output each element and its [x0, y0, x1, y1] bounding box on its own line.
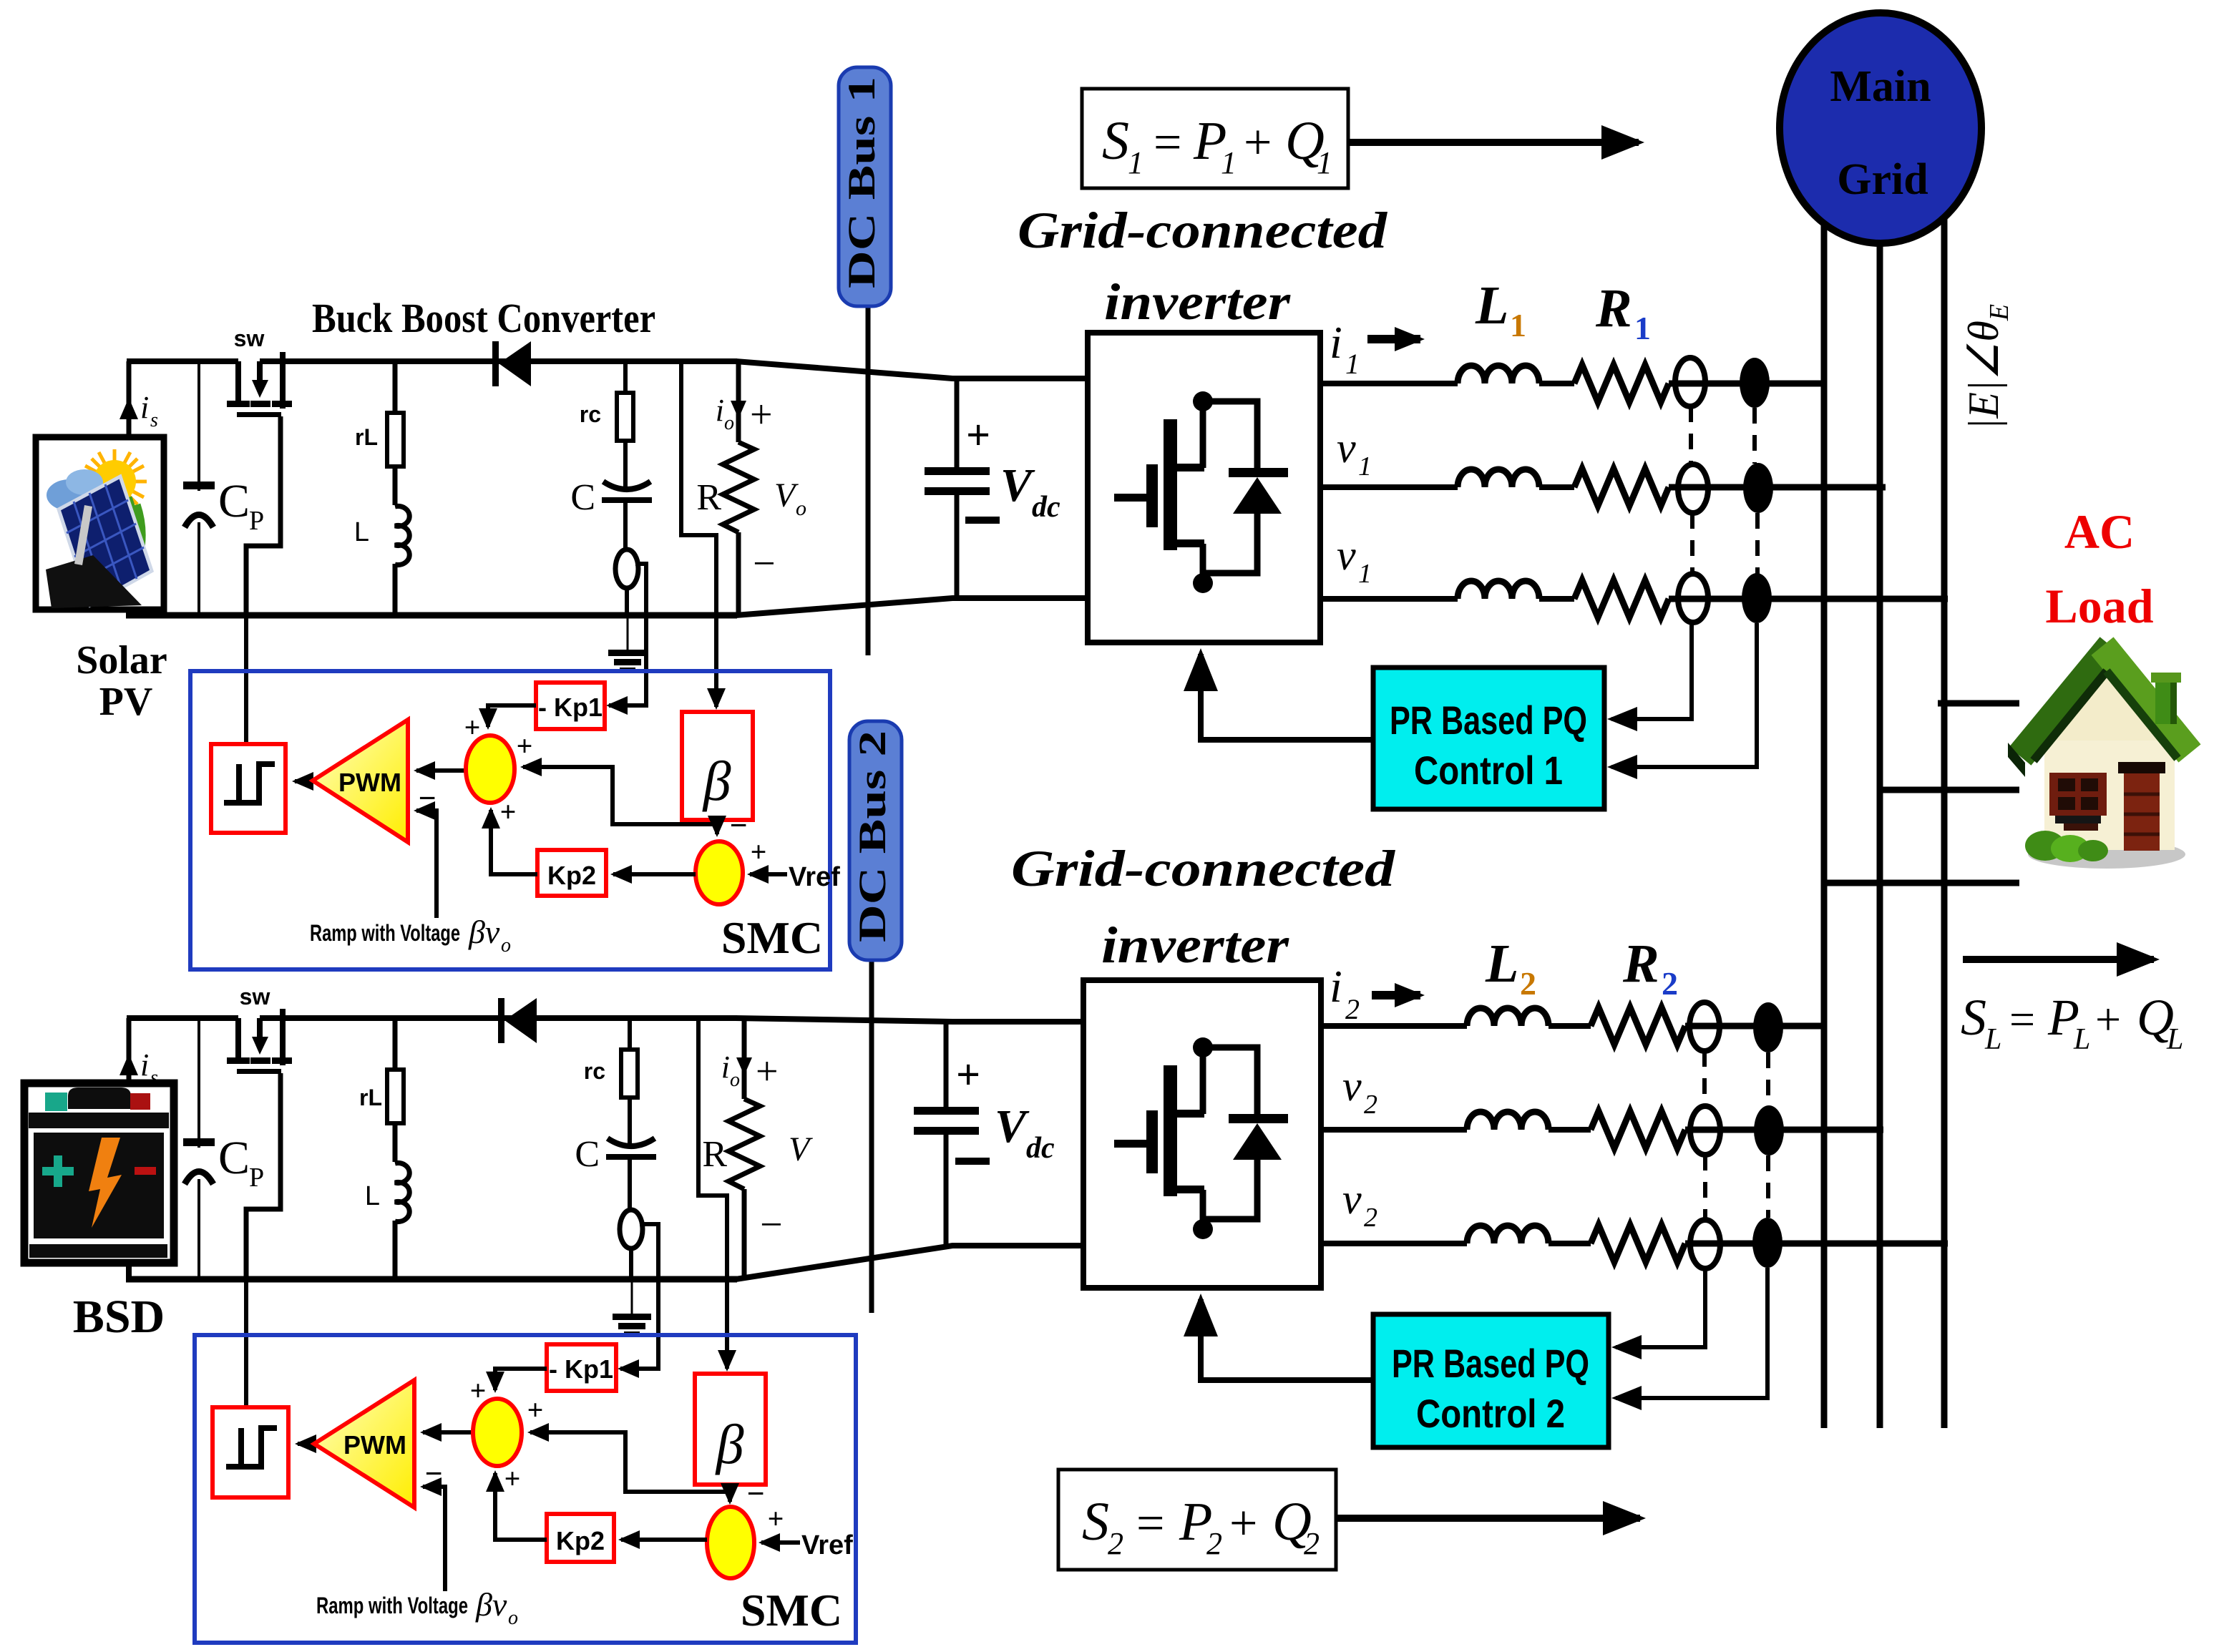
svg-text:+: +	[1244, 115, 1272, 170]
wire bus line B	[1877, 186, 1883, 1428]
block -Kp1 u1	[536, 683, 605, 729]
capacitor branch rc1	[623, 361, 628, 393]
block PWM2 triangle	[314, 1380, 414, 1507]
node DC Bus 2 line	[869, 960, 874, 1313]
resistor R1 zigzag a	[1574, 365, 1669, 402]
transistor Q2 igbt	[1114, 1065, 1204, 1196]
svg-text:Control 1: Control 1	[1414, 748, 1563, 793]
wire top rail2 left	[127, 1015, 238, 1021]
capacitor Cp1 wire	[197, 361, 200, 615]
wire Kp2 to sum2a	[495, 1473, 547, 1540]
diode D1f freewheel	[1203, 401, 1257, 472]
svg-text:P: P	[249, 506, 264, 536]
svg-text:SMC: SMC	[721, 912, 823, 963]
roof right band	[2102, 646, 2190, 753]
svg-text:+: +	[504, 1462, 521, 1495]
current arrow is	[127, 401, 132, 430]
wire phase2a	[1321, 1023, 1467, 1029]
load branch R2o	[742, 1018, 747, 1099]
svg-text:s: s	[150, 409, 158, 431]
block beta1	[682, 712, 753, 820]
resistor R1o zigzag	[723, 442, 754, 532]
svg-text:L: L	[2073, 1023, 2090, 1056]
svg-text:1: 1	[1128, 145, 1143, 180]
svg-text:R: R	[696, 477, 721, 518]
inductor branch rL1	[393, 361, 398, 615]
svg-text:Vref: Vref	[801, 1530, 853, 1560]
svg-text:−: −	[418, 781, 436, 816]
wire phase1b	[1320, 484, 1458, 490]
wire gate drive from SMC2	[244, 1209, 248, 1407]
capacitor Vdc2	[944, 1022, 949, 1109]
svg-text:- Kp1: - Kp1	[538, 693, 603, 722]
solar PV source icon frame	[36, 437, 164, 610]
wire beta1 to sum2	[715, 824, 719, 834]
wire load stub phase b	[1881, 787, 2019, 793]
svg-text:2: 2	[1364, 1203, 1377, 1233]
svg-text:L: L	[1475, 275, 1508, 336]
svg-text:v: v	[1342, 1062, 1362, 1110]
svg-text:R: R	[1595, 278, 1632, 338]
wire sensor feedback i to PR1	[1611, 623, 1757, 767]
svg-text:o: o	[724, 412, 734, 434]
wire sensor feedback v to PR2	[1616, 1269, 1705, 1347]
chimney	[2155, 681, 2172, 724]
wire phase2b	[1321, 1127, 1467, 1133]
svg-text:V: V	[995, 1100, 1030, 1153]
svg-text:2: 2	[1662, 965, 1678, 1002]
svg-text:2: 2	[1520, 965, 1536, 1002]
mosfet SW1	[227, 352, 292, 417]
svg-text:PR Based PQ: PR Based PQ	[1390, 698, 1587, 743]
label S2 = P2 + Q2 box	[1058, 1470, 1336, 1570]
svg-text:v: v	[1342, 1176, 1362, 1223]
current sensor S1s	[615, 549, 638, 588]
bushes	[2025, 831, 2065, 861]
inductor branch rL2	[393, 1018, 398, 1279]
capacitor Cp2	[186, 1148, 212, 1179]
svg-text:o: o	[508, 1607, 518, 1629]
wire top rail right segment	[260, 358, 737, 364]
svg-text:P: P	[249, 1163, 264, 1193]
inductor L2coil	[391, 1162, 400, 1221]
wire Kp1 to sum1	[488, 705, 536, 727]
svg-text:2: 2	[1304, 1526, 1320, 1561]
svg-text:sw: sw	[240, 984, 270, 1010]
wire PR1 to inverter gate	[1201, 654, 1373, 740]
svg-text:+: +	[1229, 1496, 1257, 1551]
svg-text:rc: rc	[584, 1058, 605, 1084]
wire mosfet source step	[246, 416, 281, 615]
svg-text:Kp2: Kp2	[547, 861, 596, 890]
wire phase2c	[1321, 1241, 1467, 1246]
inductor L1 coil a	[1458, 366, 1539, 383]
svg-text:i: i	[716, 393, 724, 428]
wire sum2 to Kp2	[613, 872, 696, 876]
wire phase1a	[1320, 381, 1458, 386]
svg-text:2: 2	[1345, 993, 1360, 1025]
svg-text:L: L	[365, 1181, 380, 1211]
svg-text:PWM: PWM	[343, 1430, 406, 1460]
svg-text:rL: rL	[359, 1085, 382, 1110]
diode D2	[498, 998, 504, 1043]
wire bus line C	[1941, 186, 1948, 1428]
node Main Grid	[1780, 13, 1981, 243]
svg-text:DC Bus 2: DC Bus 2	[851, 730, 894, 942]
label S1 = P1 + Q1 box	[1082, 89, 1348, 188]
wire Kp1 to sum2a	[495, 1369, 547, 1390]
inverter U2 box	[1083, 980, 1321, 1288]
wire converging trapezoid to Vdc2	[736, 1018, 1085, 1022]
wire PWM2 to H2	[298, 1442, 314, 1446]
block hysteresis H2	[213, 1407, 288, 1497]
ground GND1	[627, 615, 629, 651]
svg-text:βv: βv	[475, 1586, 507, 1623]
wire beta2 to sum2b	[728, 1492, 732, 1502]
svg-text:+: +	[768, 1502, 784, 1535]
svg-text:S: S	[1961, 989, 1986, 1046]
wire beta1 feedback to sum1	[523, 767, 717, 824]
wire battery top to rail2	[127, 1018, 132, 1083]
wire sensor feedback v to PR1	[1611, 622, 1692, 719]
svg-text:=: =	[1154, 115, 1181, 170]
block beta2	[695, 1374, 766, 1485]
capacitor Cp1	[186, 491, 212, 522]
svg-text:2: 2	[1108, 1526, 1123, 1561]
wire dashed sensor links unit2	[1705, 1051, 1768, 1220]
svg-text:1: 1	[1317, 145, 1332, 180]
svg-text:dc: dc	[1032, 491, 1060, 524]
wire arrow S1 to grid	[1348, 139, 1639, 146]
node sum S2a	[473, 1399, 522, 1466]
svg-text:inverter: inverter	[1101, 917, 1289, 974]
wire bus line A	[1821, 186, 1828, 1428]
svg-text:−: −	[729, 808, 747, 843]
svg-text:L: L	[2166, 1023, 2183, 1056]
roof left band	[2020, 646, 2111, 756]
block Kp2 u1	[537, 850, 606, 896]
house icon	[2008, 646, 2190, 869]
svg-text:o: o	[730, 1069, 740, 1091]
wire dashed sensor links unit1	[1691, 406, 1757, 575]
svg-text:V: V	[789, 1130, 813, 1168]
capacitor C1	[603, 482, 650, 489]
svg-text:=: =	[1136, 1496, 1164, 1551]
svg-text:+: +	[464, 711, 481, 743]
svg-text:1: 1	[1221, 145, 1237, 180]
svg-text:C: C	[575, 1134, 600, 1175]
resistor R2o zigzag	[728, 1099, 760, 1189]
svg-text:C: C	[218, 1132, 250, 1184]
svg-text:=: =	[2009, 994, 2035, 1045]
wire sensor2 tap to Kp1	[620, 1224, 658, 1369]
svg-text:R: R	[1622, 934, 1659, 994]
svg-text:o: o	[796, 497, 806, 520]
wire beta2 feedback to sum2a	[530, 1432, 730, 1492]
svg-text:PR Based PQ: PR Based PQ	[1392, 1341, 1589, 1386]
wire ramp to PWM2	[423, 1487, 445, 1591]
svg-text:Ramp with Voltage: Ramp with Voltage	[316, 1593, 468, 1618]
svg-text:L: L	[1485, 934, 1518, 994]
wire PWM1 to H1	[295, 779, 313, 783]
door	[2118, 762, 2165, 773]
svg-text:−: −	[424, 1456, 442, 1491]
diode D1	[492, 341, 499, 386]
svg-text:DC Bus 1: DC Bus 1	[840, 77, 883, 288]
svg-text:+: +	[517, 730, 533, 762]
svg-text:i: i	[1330, 961, 1342, 1012]
node sum S1b	[696, 841, 743, 904]
block SMC2 frame	[195, 1335, 856, 1643]
sun	[82, 449, 147, 514]
label DC Bus 1	[839, 67, 891, 306]
svg-text:1: 1	[1510, 307, 1526, 343]
svg-text:+: +	[756, 1050, 779, 1094]
svg-text:+: +	[751, 836, 767, 868]
svg-text:o: o	[501, 934, 511, 957]
svg-text:i: i	[140, 390, 149, 425]
node voltage sensor column unit1 (open ellipses)	[1675, 358, 1705, 406]
current arrow is2	[127, 1057, 132, 1082]
svg-text:Load: Load	[2045, 579, 2153, 633]
svg-text:R: R	[702, 1134, 727, 1175]
svg-text:Vref: Vref	[789, 862, 840, 892]
svg-text:v: v	[1337, 532, 1356, 579]
window	[2049, 773, 2107, 816]
cloud	[47, 479, 92, 511]
svg-text:+: +	[527, 1394, 544, 1426]
svg-text:Control 2: Control 2	[1416, 1391, 1565, 1436]
svg-text:PWM: PWM	[338, 768, 401, 797]
block Kp2 u2	[547, 1514, 614, 1562]
capacitor Cp2 wire	[197, 1018, 200, 1279]
wire mosfet2 source step	[246, 1073, 281, 1279]
wire arrow S2 out	[1336, 1515, 1640, 1522]
svg-text:S: S	[1082, 1492, 1109, 1552]
svg-text:Buck Boost Converter: Buck Boost Converter	[312, 295, 655, 341]
svg-text:2: 2	[1364, 1090, 1377, 1120]
solar panel	[59, 476, 152, 605]
wire PV top to rail	[127, 361, 132, 437]
transistor Q1 igbt	[1114, 419, 1204, 550]
wire gate drive from SMC1	[244, 546, 248, 744]
block PR Based PQ Control 2	[1373, 1314, 1609, 1447]
wire sensor tap to Kp1	[609, 564, 646, 705]
svg-text:L: L	[1984, 1023, 2001, 1056]
svg-text:+: +	[500, 796, 517, 828]
svg-text:1: 1	[1634, 310, 1651, 346]
node sum S1a	[466, 735, 514, 803]
wire top rail left segment	[127, 358, 238, 364]
wire load stub phase a	[1938, 700, 2019, 707]
svg-text:+: +	[966, 411, 990, 459]
svg-text:−: −	[760, 1203, 783, 1247]
svg-text:s: s	[150, 1067, 158, 1089]
current sensor S2s	[620, 1210, 643, 1248]
wire converging trapezoid to Vdc1	[736, 361, 1088, 378]
roof underside dark	[2034, 671, 2107, 761]
svg-text:2: 2	[1206, 1526, 1222, 1561]
svg-text:i: i	[1330, 317, 1342, 368]
svg-text:v: v	[1337, 424, 1356, 471]
svg-text:C: C	[570, 477, 595, 518]
wire ramp to PWM1	[416, 811, 437, 918]
wire bottom rail unit2	[126, 1276, 737, 1283]
svg-text:+: +	[750, 393, 773, 437]
svg-text:Grid-connected: Grid-connected	[1011, 840, 1395, 897]
svg-text:V: V	[1000, 459, 1035, 512]
panel stand/base	[46, 555, 142, 608]
svg-text:S: S	[1102, 111, 1129, 171]
load branch R1o	[736, 361, 741, 442]
wire arrow SL out	[1963, 956, 2154, 963]
svg-text:|E|∠θE: |E|∠θE	[1960, 304, 2014, 430]
svg-text:- Kp1: - Kp1	[549, 1354, 613, 1384]
svg-text:1: 1	[1358, 559, 1372, 589]
battery BSD icon	[24, 1083, 174, 1263]
ground GND2	[631, 1279, 633, 1315]
node current tap column unit2	[1753, 1002, 1783, 1052]
wire sum2b to Kp2	[621, 1538, 707, 1542]
svg-text:AC: AC	[2064, 504, 2135, 559]
wire load stub phase c	[1825, 880, 2019, 886]
svg-text:β: β	[702, 750, 731, 812]
svg-text:+: +	[956, 1051, 980, 1098]
wire bottom rail unit1	[126, 612, 737, 619]
node current tap column unit1 (filled ellipses)	[1740, 358, 1770, 408]
svg-text:i: i	[140, 1047, 149, 1082]
svg-text:V: V	[774, 476, 799, 514]
wire top rail2 right	[260, 1015, 737, 1021]
grass	[114, 497, 142, 551]
svg-text:Grid-connected: Grid-connected	[1018, 202, 1388, 259]
wire sensor feedback i to PR2	[1616, 1268, 1767, 1398]
wire Vo tap to beta1	[681, 361, 716, 707]
wire sum1 to PWM1	[416, 768, 466, 773]
mosfet SW2	[227, 1009, 292, 1074]
svg-text:+: +	[470, 1374, 487, 1407]
svg-text:Solar: Solar	[76, 638, 167, 683]
wire PR2 to inverter2 gate	[1201, 1299, 1373, 1380]
node sum S2b	[707, 1507, 754, 1578]
block SMC1 frame	[190, 671, 830, 969]
wire phase1c	[1320, 596, 1458, 602]
svg-text:1: 1	[1345, 348, 1360, 380]
svg-text:β: β	[715, 1413, 744, 1475]
svg-text:Kp2: Kp2	[556, 1526, 605, 1555]
svg-text:PV: PV	[99, 680, 153, 724]
svg-text:L: L	[354, 517, 369, 547]
block -Kp1 u2	[547, 1344, 616, 1391]
svg-text:Main: Main	[1830, 62, 1931, 111]
svg-text:−: −	[753, 542, 776, 586]
capacitor Vdc1	[955, 378, 960, 469]
svg-text:sw: sw	[234, 326, 265, 351]
block PWM1 triangle	[313, 720, 408, 842]
svg-text:SMC: SMC	[741, 1585, 842, 1636]
inductor L1coil	[391, 505, 400, 564]
wire sum1 to PWM2	[423, 1430, 473, 1434]
svg-text:Ramp with Voltage: Ramp with Voltage	[310, 920, 460, 946]
node DC Bus 1 line	[866, 306, 871, 655]
wire V tap to beta2	[698, 1018, 727, 1369]
svg-text:dc: dc	[1026, 1132, 1055, 1165]
svg-text:−: −	[746, 1476, 764, 1511]
block hysteresis H1	[211, 744, 286, 833]
svg-text:inverter: inverter	[1104, 273, 1291, 331]
label DC Bus 2	[849, 721, 902, 960]
svg-text:BSD: BSD	[73, 1291, 165, 1343]
svg-text:i: i	[721, 1050, 730, 1085]
svg-text:+: +	[2095, 994, 2121, 1045]
diode D2f freewheel	[1203, 1047, 1257, 1118]
svg-text:βv: βv	[468, 914, 500, 950]
capacitor C2	[608, 1138, 655, 1146]
wire Kp2 to sum1	[491, 810, 537, 874]
svg-text:rL: rL	[355, 424, 378, 450]
svg-text:1: 1	[1358, 451, 1372, 482]
svg-text:Grid: Grid	[1837, 155, 1928, 204]
node voltage sensor column unit2	[1689, 1002, 1720, 1051]
block PR Based PQ Control 1	[1373, 668, 1604, 809]
svg-text:C: C	[218, 475, 250, 527]
capacitor branch rc2	[628, 1018, 632, 1050]
inverter U1 box	[1088, 333, 1320, 642]
svg-text:rc: rc	[580, 401, 601, 427]
